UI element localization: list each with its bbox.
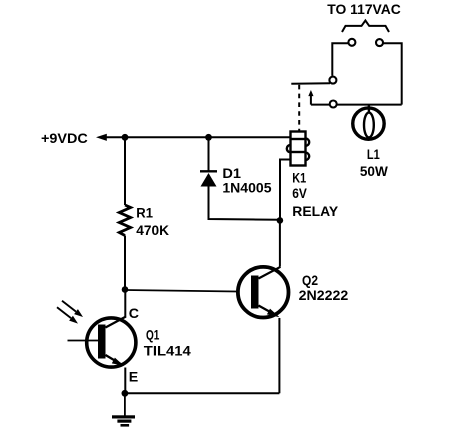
plug terminal right (376, 39, 383, 46)
svg-text:TIL414: TIL414 (144, 343, 191, 358)
wire: rail to D1 (208, 137, 210, 171)
svg-text:RELAY: RELAY (292, 204, 338, 220)
wire: bottom emitter bus (125, 392, 280, 394)
svg-text:6V: 6V (292, 186, 307, 202)
transistor Q2 (238, 267, 289, 318)
junction: emitter / ground (122, 390, 129, 397)
wire: rail to R1 (124, 137, 126, 205)
svg-text:50W: 50W (360, 164, 388, 180)
svg-text:TO 117VAC: TO 117VAC (327, 2, 401, 18)
resistor R1 (119, 205, 130, 236)
supply rail arrow (96, 134, 107, 141)
wire: coil bottom to node (280, 160, 291, 221)
svg-text:1N4005: 1N4005 (222, 181, 271, 197)
junction: R1 / Q1 collector / Q2 base (122, 286, 129, 293)
svg-text:L1: L1 (367, 147, 380, 163)
mechanical dashed link coil to armature (298, 85, 300, 132)
wire: D1 anode to coil-bottom node (209, 187, 280, 220)
diode D1 (200, 171, 217, 186)
svg-text:K1: K1 (292, 170, 306, 186)
actuation arrow (308, 90, 313, 105)
wire: lower contact to lamp branch (337, 104, 402, 106)
svg-text:Q1: Q1 (146, 328, 159, 344)
ground (112, 393, 135, 426)
wire: node to Q2 collector (279, 220, 281, 266)
wire: right plug terminal down right side (383, 43, 402, 104)
svg-text:2N2222: 2N2222 (299, 288, 349, 304)
svg-text:D1: D1 (222, 166, 241, 182)
svg-text:470K: 470K (136, 223, 169, 239)
phototransistor Q1 (68, 317, 136, 368)
lamp L1 (353, 106, 384, 140)
wire: R1 to base node (124, 236, 126, 290)
junction: rail / R1 (122, 134, 129, 141)
wire: node down to Q1 collector (124, 290, 126, 318)
svg-text:+9VDC: +9VDC (41, 131, 88, 147)
wire: left plug terminal to upper relay contact (332, 43, 348, 76)
wire: +9VDC rail (103, 136, 291, 138)
light arrow 2 (57, 307, 80, 326)
wire: lower contact to arrow (311, 104, 330, 106)
relay contact pivot (upper circle) (329, 77, 336, 84)
relay coil K1 (287, 132, 309, 166)
wire: Q2 emitter down (278, 318, 280, 393)
svg-text:R1: R1 (136, 205, 153, 221)
wire: node to Q2 base (125, 290, 237, 292)
svg-text:Q2: Q2 (302, 273, 318, 289)
svg-text:C: C (129, 306, 139, 322)
wire: Q1 emitter down (124, 368, 126, 394)
plug terminal left (348, 39, 355, 46)
AC plug brace symbol (342, 21, 389, 33)
relay armature (movable contact) (291, 82, 330, 85)
junction: coil / D1 / Q2 collector (277, 217, 284, 224)
svg-text:E: E (129, 369, 138, 385)
junction: rail / D1 (205, 134, 212, 141)
relay contact (lower circle) (330, 101, 337, 108)
light arrow 1 (62, 301, 85, 320)
